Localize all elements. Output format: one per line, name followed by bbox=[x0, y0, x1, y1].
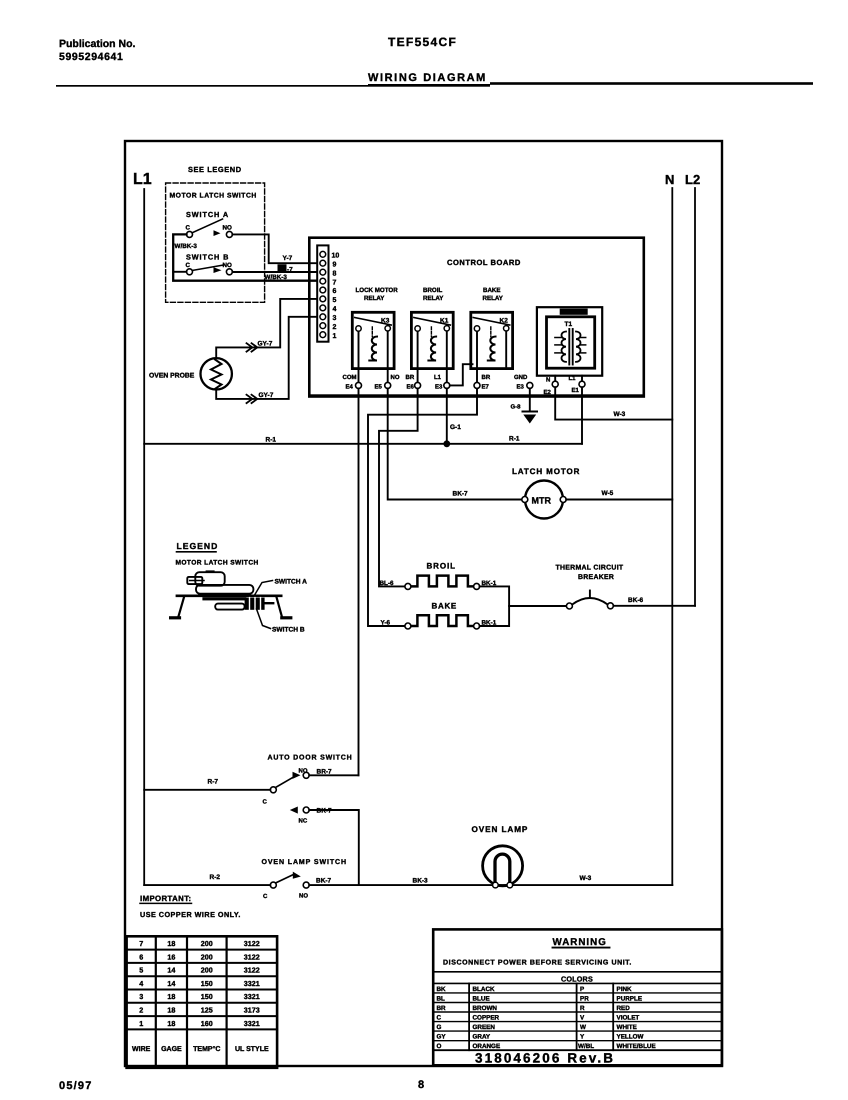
svg-text:G-1: G-1 bbox=[450, 424, 461, 431]
svg-text:Y-6: Y-6 bbox=[381, 620, 391, 627]
svg-text:C: C bbox=[437, 1015, 442, 1022]
svg-text:BREAKER: BREAKER bbox=[578, 574, 614, 581]
svg-text:150: 150 bbox=[201, 979, 213, 988]
svg-text:WIRE: WIRE bbox=[132, 1046, 151, 1053]
svg-text:R-1: R-1 bbox=[509, 436, 520, 443]
svg-text:BR: BR bbox=[406, 374, 415, 381]
svg-text:NO: NO bbox=[223, 225, 232, 232]
svg-text:AUTO DOOR SWITCH: AUTO DOOR SWITCH bbox=[268, 755, 353, 762]
svg-text:318046206 Rev.B: 318046206 Rev.B bbox=[475, 1051, 615, 1066]
svg-text:MTR: MTR bbox=[532, 496, 552, 506]
wire BK-6 breaker to L2 bbox=[613, 597, 695, 606]
svg-text:BK-7: BK-7 bbox=[317, 808, 333, 815]
color code entries bbox=[437, 986, 656, 1050]
svg-text:MOTOR LATCH SWITCH: MOTOR LATCH SWITCH bbox=[176, 560, 259, 567]
svg-text:BL-6: BL-6 bbox=[380, 580, 394, 587]
svg-text:5: 5 bbox=[139, 966, 143, 975]
svg-text:WIRING DIAGRAM: WIRING DIAGRAM bbox=[368, 72, 487, 84]
wire switch A NO to pin 9 bbox=[232, 234, 316, 263]
transformer T1 bbox=[537, 307, 602, 381]
color code table bbox=[433, 983, 722, 1050]
oven lamp switch bbox=[262, 859, 347, 900]
svg-text:BK-7: BK-7 bbox=[453, 491, 469, 498]
wire elements to breaker bbox=[480, 586, 567, 626]
svg-text:200: 200 bbox=[201, 939, 213, 948]
svg-text:8: 8 bbox=[418, 1079, 424, 1091]
terminal GND E3 bbox=[514, 374, 533, 391]
WIRING DIAGRAM underline bbox=[368, 84, 490, 86]
svg-text:3173: 3173 bbox=[244, 1006, 260, 1015]
svg-text:150: 150 bbox=[201, 992, 213, 1001]
svg-text:-7: -7 bbox=[287, 266, 293, 273]
svg-text:TEMP°C: TEMP°C bbox=[193, 1046, 220, 1053]
wire E6 to broil BL-6 bbox=[379, 388, 418, 586]
svg-text:BR: BR bbox=[437, 1005, 447, 1012]
svg-text:16: 16 bbox=[167, 952, 175, 961]
svg-text:W: W bbox=[580, 1024, 586, 1031]
svg-text:R-7: R-7 bbox=[208, 779, 219, 786]
svg-text:USE COPPER WIRE ONLY.: USE COPPER WIRE ONLY. bbox=[140, 910, 241, 919]
wire W-5 latch motor to N bbox=[566, 490, 672, 500]
svg-text:IMPORTANT:: IMPORTANT: bbox=[140, 894, 192, 903]
wire G-1 E3 down bbox=[447, 388, 461, 443]
svg-text:GY-7: GY-7 bbox=[258, 341, 273, 348]
wire BK-7 NC down to lamp run bbox=[309, 810, 359, 885]
svg-text:T1: T1 bbox=[565, 321, 573, 328]
junction dot R-1/G-1 bbox=[443, 440, 450, 447]
svg-text:E1: E1 bbox=[572, 387, 580, 394]
connector pin numbers 10..1 bbox=[332, 253, 340, 340]
svg-text:O: O bbox=[437, 1043, 442, 1050]
svg-text:NC: NC bbox=[299, 818, 308, 825]
terminal E6 bbox=[406, 374, 421, 391]
wire L2 vertical bus bbox=[694, 188, 696, 606]
wire E4 down to auto door switch bbox=[358, 388, 360, 775]
svg-text:18: 18 bbox=[167, 1006, 175, 1015]
svg-text:14: 14 bbox=[167, 979, 175, 988]
svg-text:R-2: R-2 bbox=[210, 874, 221, 881]
wire E7 to bake Y-6 bbox=[368, 388, 477, 626]
svg-text:PINK: PINK bbox=[617, 986, 632, 993]
svg-text:MOTOR LATCH SWITCH: MOTOR LATCH SWITCH bbox=[170, 193, 257, 200]
svg-text:R: R bbox=[580, 1005, 585, 1012]
IMPORTANT note bbox=[140, 894, 241, 919]
svg-text:COLORS: COLORS bbox=[561, 974, 593, 983]
svg-text:C: C bbox=[263, 893, 268, 900]
svg-text:C: C bbox=[186, 262, 191, 269]
svg-text:6: 6 bbox=[139, 952, 143, 961]
svg-text:GND: GND bbox=[514, 374, 528, 381]
svg-text:OVEN LAMP SWITCH: OVEN LAMP SWITCH bbox=[262, 859, 347, 866]
svg-text:OVEN PROBE: OVEN PROBE bbox=[149, 373, 195, 380]
title Publication No. bbox=[59, 38, 136, 63]
svg-text:8: 8 bbox=[333, 270, 337, 277]
header rule right bbox=[490, 82, 813, 85]
svg-text:18: 18 bbox=[167, 992, 175, 1001]
main schematic border frame bbox=[125, 141, 722, 1066]
svg-text:SWITCH A: SWITCH A bbox=[186, 210, 229, 219]
svg-text:3321: 3321 bbox=[244, 1019, 260, 1028]
wire E3 to relay K2 bbox=[450, 364, 473, 385]
svg-text:E7: E7 bbox=[482, 384, 490, 391]
thermal circuit breaker bbox=[556, 565, 624, 610]
svg-text:E6: E6 bbox=[407, 384, 415, 391]
svg-text:PURPLE: PURPLE bbox=[617, 995, 643, 1002]
svg-text:05/97: 05/97 bbox=[59, 1080, 93, 1092]
wire gauge table bbox=[127, 936, 278, 1068]
svg-text:C: C bbox=[263, 799, 268, 806]
svg-text:RELAY: RELAY bbox=[364, 295, 385, 302]
legend switch A pointer bbox=[254, 579, 307, 597]
svg-text:Y: Y bbox=[580, 1034, 585, 1041]
svg-text:WHITE/BLUE: WHITE/BLUE bbox=[617, 1043, 656, 1050]
svg-text:BK-6: BK-6 bbox=[628, 597, 644, 604]
wire GY-7 probe bottom to pin 3 bbox=[216, 317, 316, 403]
svg-text:G-8: G-8 bbox=[511, 404, 522, 411]
svg-text:200: 200 bbox=[201, 952, 213, 961]
svg-text:200: 200 bbox=[201, 966, 213, 975]
svg-text:6: 6 bbox=[333, 288, 337, 295]
terminal E1 L1 bbox=[569, 375, 586, 394]
svg-text:GY-7: GY-7 bbox=[259, 392, 274, 399]
switch B bbox=[186, 262, 233, 275]
svg-text:BL: BL bbox=[437, 995, 446, 1002]
svg-text:SWITCH B: SWITCH B bbox=[272, 627, 305, 634]
terminal E7 bbox=[474, 374, 491, 391]
svg-text:BROIL: BROIL bbox=[427, 562, 456, 571]
svg-text:125: 125 bbox=[201, 1006, 213, 1015]
svg-text:SWITCH B: SWITCH B bbox=[186, 253, 229, 262]
svg-text:GAGE: GAGE bbox=[161, 1046, 182, 1053]
wire common tie to pin 7 bbox=[173, 234, 316, 280]
svg-text:7: 7 bbox=[139, 939, 143, 948]
wire R-2 bbox=[144, 874, 270, 885]
wire R-1 main run bbox=[144, 436, 582, 444]
svg-text:BK-7: BK-7 bbox=[316, 878, 332, 885]
wire GY-7 probe top to pin 5 bbox=[216, 299, 316, 358]
svg-text:BAKE: BAKE bbox=[432, 602, 457, 611]
svg-text:W/BL: W/BL bbox=[578, 1043, 594, 1050]
svg-text:3122: 3122 bbox=[244, 952, 260, 961]
wire E1 down to R-1 bbox=[581, 387, 583, 444]
label BK-7 blob bbox=[278, 264, 294, 273]
svg-text:E5: E5 bbox=[375, 384, 383, 391]
svg-text:RELAY: RELAY bbox=[483, 295, 504, 302]
svg-text:LEGEND: LEGEND bbox=[177, 541, 219, 551]
svg-text:DISCONNECT POWER BEFORE SERVIC: DISCONNECT POWER BEFORE SERVICING UNIT. bbox=[443, 960, 632, 967]
switch A bbox=[186, 219, 233, 237]
svg-text:E4: E4 bbox=[346, 384, 354, 391]
auto door switch bbox=[263, 755, 353, 825]
svg-text:GREEN: GREEN bbox=[473, 1024, 496, 1031]
svg-text:C: C bbox=[186, 225, 191, 232]
svg-text:UL STYLE: UL STYLE bbox=[235, 1046, 269, 1053]
svg-text:1: 1 bbox=[139, 1019, 143, 1028]
svg-text:WARNING: WARNING bbox=[553, 937, 607, 948]
wire R-7 bbox=[144, 779, 270, 790]
svg-text:P: P bbox=[580, 986, 584, 993]
svg-text:ORANGE: ORANGE bbox=[473, 1043, 501, 1050]
svg-text:BR: BR bbox=[482, 374, 491, 381]
wire BR-7 NO to E4 riser bbox=[309, 774, 358, 776]
svg-text:GRAY: GRAY bbox=[473, 1034, 491, 1041]
svg-text:3321: 3321 bbox=[244, 979, 260, 988]
svg-text:1: 1 bbox=[333, 333, 337, 340]
wire switch B NO to pin 8 bbox=[232, 271, 316, 273]
oven probe bbox=[149, 358, 232, 389]
svg-text:E2: E2 bbox=[544, 389, 552, 396]
svg-text:WHITE: WHITE bbox=[617, 1024, 637, 1031]
svg-text:SEE LEGEND: SEE LEGEND bbox=[188, 165, 242, 174]
svg-text:R-1: R-1 bbox=[266, 437, 277, 444]
ground symbol G-8 bbox=[511, 388, 538, 423]
svg-text:3321: 3321 bbox=[244, 992, 260, 1001]
legend switch B pointer bbox=[257, 609, 305, 634]
svg-text:N: N bbox=[546, 377, 550, 384]
svg-text:BAKE: BAKE bbox=[483, 287, 501, 294]
svg-text:OVEN LAMP: OVEN LAMP bbox=[472, 825, 529, 834]
svg-text:E3: E3 bbox=[435, 384, 443, 391]
svg-text:L1: L1 bbox=[569, 375, 577, 382]
svg-text:Y-7: Y-7 bbox=[283, 255, 293, 262]
header rule left bbox=[56, 85, 490, 87]
svg-text:3: 3 bbox=[139, 992, 143, 1001]
svg-text:YELLOW: YELLOW bbox=[617, 1034, 644, 1041]
svg-text:14: 14 bbox=[167, 966, 175, 975]
svg-text:G: G bbox=[437, 1024, 442, 1031]
svg-text:W-3: W-3 bbox=[614, 411, 626, 418]
wire W-3 E2 to N bbox=[555, 387, 672, 419]
svg-text:9: 9 bbox=[333, 262, 337, 269]
svg-text:THERMAL CIRCUIT: THERMAL CIRCUIT bbox=[556, 565, 624, 572]
oven lamp bbox=[472, 825, 529, 888]
svg-text:E3: E3 bbox=[517, 384, 525, 391]
svg-text:L1: L1 bbox=[434, 374, 442, 381]
warning box bbox=[433, 929, 722, 1065]
svg-text:VIOLET: VIOLET bbox=[617, 1015, 640, 1022]
svg-text:BK-3: BK-3 bbox=[413, 878, 429, 885]
svg-text:BLUE: BLUE bbox=[473, 995, 490, 1002]
svg-text:5: 5 bbox=[333, 297, 337, 304]
svg-text:SWITCH A: SWITCH A bbox=[275, 579, 308, 586]
svg-text:3: 3 bbox=[333, 315, 337, 322]
wire L1 vertical bus bbox=[143, 189, 145, 885]
svg-text:W-3: W-3 bbox=[580, 875, 592, 882]
svg-text:LATCH MOTOR: LATCH MOTOR bbox=[512, 467, 580, 476]
legend heading bbox=[176, 541, 259, 567]
control board box bbox=[309, 238, 644, 398]
svg-text:Publication No.: Publication No. bbox=[59, 38, 136, 50]
svg-text:18: 18 bbox=[167, 1019, 175, 1028]
svg-text:TEF554CF: TEF554CF bbox=[388, 35, 457, 49]
svg-text:N: N bbox=[665, 172, 674, 187]
svg-text:BLACK: BLACK bbox=[473, 986, 495, 993]
svg-text:BROWN: BROWN bbox=[473, 1005, 498, 1012]
svg-text:V: V bbox=[580, 1015, 585, 1022]
svg-text:GY: GY bbox=[437, 1034, 447, 1041]
svg-text:W/BK-3: W/BK-3 bbox=[265, 274, 288, 281]
wire table header bbox=[132, 1046, 269, 1053]
legend latch mechanism bbox=[171, 570, 291, 617]
svg-text:10: 10 bbox=[332, 253, 340, 260]
svg-text:W-5: W-5 bbox=[602, 490, 614, 497]
svg-text:BROIL: BROIL bbox=[423, 287, 442, 294]
svg-text:RED: RED bbox=[617, 1005, 631, 1012]
bake element bbox=[381, 602, 497, 630]
svg-text:COM: COM bbox=[343, 374, 357, 381]
terminal E2 N bbox=[544, 377, 559, 397]
svg-text:7: 7 bbox=[333, 279, 337, 286]
svg-text:3122: 3122 bbox=[244, 939, 260, 948]
svg-text:18: 18 bbox=[167, 939, 175, 948]
svg-text:COPPER: COPPER bbox=[473, 1015, 500, 1022]
wire N vertical bus bbox=[671, 188, 673, 885]
svg-text:RELAY: RELAY bbox=[423, 295, 444, 302]
svg-text:W/BK-3: W/BK-3 bbox=[175, 243, 198, 250]
relay K2 BAKE RELAY bbox=[471, 287, 513, 382]
svg-text:4: 4 bbox=[333, 306, 337, 313]
svg-text:PR: PR bbox=[580, 995, 589, 1002]
svg-text:NO: NO bbox=[391, 374, 400, 381]
broil element bbox=[380, 562, 497, 590]
svg-text:2: 2 bbox=[333, 324, 337, 331]
relay K3 LOCK MOTOR RELAY bbox=[352, 287, 398, 382]
svg-text:160: 160 bbox=[201, 1019, 213, 1028]
svg-text:BK: BK bbox=[437, 986, 447, 993]
svg-text:L1: L1 bbox=[133, 171, 152, 188]
terminal E5 bbox=[375, 374, 400, 391]
terminal E3 L1 bbox=[434, 374, 450, 391]
svg-text:CONTROL BOARD: CONTROL BOARD bbox=[447, 258, 521, 267]
svg-text:LOCK MOTOR: LOCK MOTOR bbox=[356, 287, 399, 294]
svg-text:4: 4 bbox=[139, 979, 143, 988]
svg-text:3122: 3122 bbox=[244, 966, 260, 975]
connector J1 strip bbox=[317, 245, 328, 341]
wire BK-7 E5 to latch motor bbox=[388, 388, 522, 499]
latch motor MTR bbox=[512, 467, 580, 519]
svg-text:NO: NO bbox=[299, 893, 308, 900]
svg-text:L2: L2 bbox=[685, 172, 700, 187]
svg-text:2: 2 bbox=[139, 1006, 143, 1015]
wire BK-3 lamp run to N bbox=[309, 875, 672, 885]
svg-text:5995294641: 5995294641 bbox=[59, 51, 123, 63]
relay K1 BROIL RELAY bbox=[411, 287, 453, 382]
wire switch B C tie bbox=[173, 271, 186, 273]
terminal E4 bbox=[343, 374, 362, 391]
wire table data bbox=[139, 939, 260, 1028]
motor latch switch dashed box bbox=[166, 183, 265, 302]
